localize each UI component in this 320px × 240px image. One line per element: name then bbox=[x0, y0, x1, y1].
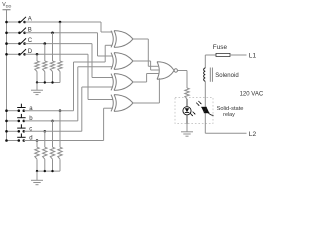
switch C row wire from rail bbox=[7, 43, 20, 45]
solid-state relay dashed box bbox=[175, 98, 213, 124]
wire c to resistor bbox=[44, 131, 46, 147]
wire L1 with fuse bbox=[205, 54, 216, 56]
wire A to logic bbox=[25, 21, 101, 23]
wire NOR output bbox=[177, 70, 187, 72]
svg-text:relay: relay bbox=[223, 112, 235, 118]
svg-text:L2: L2 bbox=[249, 131, 257, 138]
switch d row wire from rail bbox=[7, 140, 19, 142]
wire XOR2 out to NOR bbox=[133, 60, 151, 62]
junction node b pulldown bbox=[51, 120, 54, 123]
wire solenoid top bbox=[204, 55, 206, 68]
wire XOR1 out to NOR bbox=[133, 38, 148, 40]
pushbutton switch a bbox=[18, 109, 21, 112]
wire bus to ground bbox=[36, 83, 38, 91]
LED D1 bbox=[183, 107, 191, 115]
svg-text:Fuse: Fuse bbox=[213, 44, 228, 51]
pushbutton switch c bbox=[18, 130, 21, 133]
wire LED cathode to ground bbox=[186, 115, 188, 124]
XOR gate U1 bbox=[111, 31, 113, 48]
ground symbol LED bbox=[181, 131, 193, 133]
wire bus to ground lower bbox=[36, 171, 38, 180]
series resistor R9 bbox=[185, 88, 189, 99]
upper resistor ground bus bbox=[37, 82, 60, 84]
lower resistor ground bus bbox=[37, 170, 60, 172]
wire c to XOR3 (staircase) bbox=[24, 130, 82, 132]
rail junction node row B bbox=[5, 32, 8, 35]
toggle switch C bbox=[18, 42, 21, 45]
wire XOR3 out to NOR bbox=[133, 81, 147, 83]
4-input NOR gate U5 bbox=[157, 62, 174, 80]
solenoid core lines bbox=[209, 68, 211, 82]
rail junction node row b bbox=[5, 120, 8, 123]
triac Q1 bbox=[204, 82, 206, 134]
junction node D pulldown bbox=[36, 53, 39, 56]
wire b to XOR2 bbox=[24, 120, 78, 122]
rail junction node row A bbox=[5, 21, 8, 24]
junction node A pulldown bbox=[59, 21, 62, 24]
wire B to logic bbox=[25, 32, 98, 34]
pushbutton switch b bbox=[18, 120, 21, 123]
wire XOR4 out to NOR bbox=[133, 102, 159, 104]
XOR gate U4 bbox=[111, 95, 113, 112]
svg-text:120 VAC: 120 VAC bbox=[240, 92, 264, 98]
ground symbol upper bbox=[31, 89, 43, 91]
rail junction node row C bbox=[5, 42, 8, 45]
junction node d pulldown bbox=[36, 139, 39, 142]
switch a row wire from rail bbox=[7, 110, 19, 112]
svg-text:Solenoid: Solenoid bbox=[215, 73, 238, 79]
wire L2 bbox=[205, 132, 246, 134]
LED emission arrows bbox=[190, 112, 195, 116]
wire D to resistor bbox=[36, 54, 38, 61]
pulldown resistors R1-R4 (upper) bbox=[35, 61, 39, 72]
ground symbol lower bbox=[31, 179, 43, 181]
wire d to resistor bbox=[36, 141, 38, 148]
junction node c pulldown bbox=[44, 130, 47, 133]
switch c row wire from rail bbox=[7, 130, 19, 132]
junction node a pulldown bbox=[59, 109, 62, 112]
wire resistor to LED bbox=[186, 99, 188, 107]
fuse F1 bbox=[216, 53, 230, 56]
wire b to resistor bbox=[52, 121, 54, 147]
triac gate lead bbox=[208, 113, 213, 116]
V_DD rail wire bbox=[6, 10, 8, 141]
toggle switch B bbox=[18, 32, 21, 35]
XOR gate U3 bbox=[111, 74, 113, 91]
switch D row wire from rail bbox=[7, 53, 20, 55]
solenoid coil L3 bbox=[204, 68, 206, 81]
rail junction node row D bbox=[5, 53, 8, 56]
junction node B pulldown bbox=[51, 32, 54, 35]
svg-text:VDD: VDD bbox=[2, 2, 11, 8]
toggle switch A bbox=[18, 21, 21, 24]
wire D to logic bbox=[25, 53, 88, 55]
wire d to XOR4 (staircase) bbox=[24, 140, 104, 142]
toggle switch D bbox=[18, 53, 21, 56]
XOR gate U2 bbox=[111, 53, 113, 70]
wire A to resistor bbox=[59, 22, 61, 61]
pulldown resistors R5-R8 (lower) bbox=[35, 147, 39, 159]
wire a to XOR1 (staircase) bbox=[24, 110, 74, 112]
switch b row wire from rail bbox=[7, 120, 19, 122]
junction node C pulldown bbox=[44, 42, 47, 45]
rail junction node row a bbox=[5, 109, 8, 112]
wire B to resistor bbox=[52, 33, 54, 61]
svg-text:L1: L1 bbox=[249, 52, 257, 59]
wire C to resistor bbox=[44, 44, 46, 61]
rail junction node row c bbox=[5, 130, 8, 133]
wire a to resistor bbox=[59, 111, 61, 148]
switch B row wire from rail bbox=[7, 32, 20, 34]
wire C to logic bbox=[25, 43, 92, 45]
optocoupler light arrows bbox=[196, 101, 201, 106]
rail junction node row d bbox=[5, 139, 8, 142]
switch A row wire from rail bbox=[7, 21, 20, 23]
pushbutton switch d bbox=[18, 139, 21, 142]
